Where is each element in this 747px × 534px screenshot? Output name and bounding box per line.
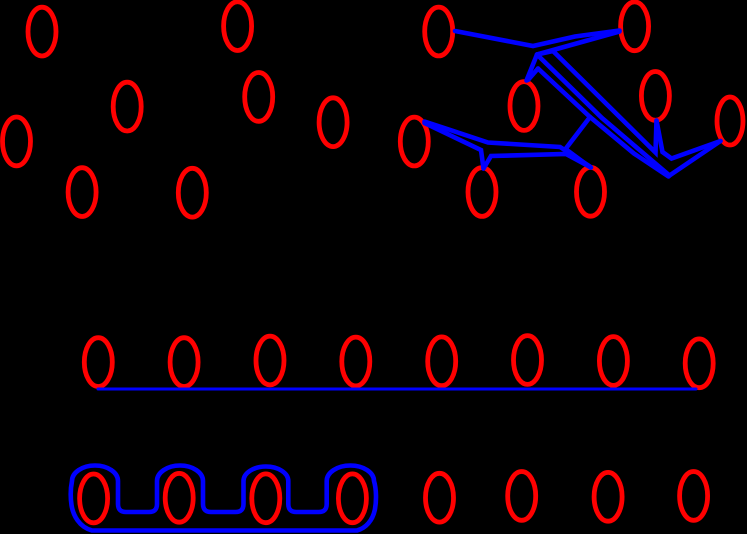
node A2 xyxy=(224,2,252,51)
node M8 xyxy=(685,339,713,388)
wire B3 to C1 diagonal xyxy=(538,69,590,118)
node V1 xyxy=(425,7,453,56)
wire V7 to V8 xyxy=(484,154,592,169)
node M1 xyxy=(84,338,112,387)
wire J1 chevron to V4 via long diagonal xyxy=(537,51,657,153)
node V4 xyxy=(641,72,669,121)
node B7 xyxy=(594,472,622,521)
node M5 xyxy=(428,337,456,386)
wire V6 upper to V8 xyxy=(425,122,591,167)
wire V6 lower to V7 xyxy=(425,123,484,169)
node B3 xyxy=(252,474,280,523)
node V2 xyxy=(621,2,649,51)
node B2 xyxy=(165,473,193,522)
node M6 xyxy=(514,336,542,385)
wire V2 to J1 xyxy=(537,32,620,55)
node B1 xyxy=(80,474,108,523)
wire J1 to V3 xyxy=(527,55,538,81)
node M2 xyxy=(170,338,198,387)
wire bottom loop around B1-B4 xyxy=(71,466,376,531)
node A3 xyxy=(113,82,141,131)
wire middle baseline xyxy=(98,388,696,391)
node A7 xyxy=(68,168,96,217)
node M7 xyxy=(599,337,627,386)
node V3 xyxy=(510,82,538,131)
wire V3 to bend B3 xyxy=(528,69,538,81)
wire V1 to V2 upper xyxy=(455,31,620,47)
node B6 xyxy=(508,472,536,521)
wire V5 to W2 xyxy=(670,141,721,176)
node V5 xyxy=(717,97,743,145)
node M4 xyxy=(342,337,370,386)
node B8 xyxy=(680,472,708,521)
node A6 xyxy=(319,98,347,147)
node V8 xyxy=(577,167,605,216)
wire W1 to V8 top xyxy=(566,149,591,168)
node A4 xyxy=(245,73,273,122)
wire V4 to V5 via notch xyxy=(657,121,721,159)
wire C1 to W1 xyxy=(566,117,591,149)
node A8 xyxy=(178,168,206,217)
wire C1 to W2 xyxy=(590,117,669,177)
node B4 xyxy=(338,474,366,523)
node V7 xyxy=(468,168,496,217)
node M3 xyxy=(256,336,284,385)
node B5 xyxy=(426,473,454,522)
node V6 xyxy=(400,117,428,166)
wire J1 to W2 diagonal xyxy=(537,55,670,176)
node A5 xyxy=(3,117,31,166)
node A1 xyxy=(28,7,56,56)
